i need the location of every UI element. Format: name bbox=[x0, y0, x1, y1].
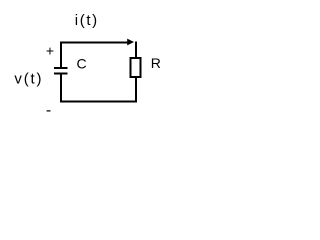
current arrow bbox=[127, 39, 134, 46]
svg-text:C: C bbox=[77, 56, 87, 72]
svg-text:R: R bbox=[151, 55, 161, 71]
svg-text:-: - bbox=[46, 102, 51, 119]
resistor R bbox=[131, 58, 141, 77]
wire right vertical upper segment bbox=[135, 42, 137, 59]
svg-text:v(t): v(t) bbox=[14, 71, 43, 88]
wire bottom horizontal bbox=[60, 101, 137, 103]
wire right vertical lower segment bbox=[135, 77, 137, 103]
wire left vertical upper segment bbox=[60, 42, 62, 69]
wire top horizontal bbox=[60, 42, 129, 44]
svg-text:i(t): i(t) bbox=[75, 12, 99, 29]
wire left vertical lower segment bbox=[60, 74, 62, 103]
svg-text:+: + bbox=[46, 43, 54, 59]
capacitor C bbox=[54, 68, 68, 74]
